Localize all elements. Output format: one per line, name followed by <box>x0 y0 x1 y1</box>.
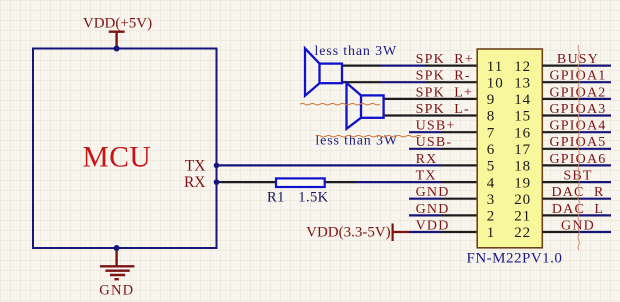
svg-text:VDD(3.3-5V): VDD(3.3-5V) <box>306 225 391 241</box>
svg-text:SPK L+: SPK L+ <box>416 85 474 100</box>
wire VDD pin1 <box>409 231 441 233</box>
power port VDD(3.3-5V) <box>306 224 409 242</box>
pin number 19 <box>514 175 531 191</box>
svg-text:16: 16 <box>514 125 531 141</box>
wire GND pin3 <box>409 198 441 200</box>
net label GPIOA6 <box>550 152 607 167</box>
wire BUSY <box>580 64 611 66</box>
svg-text:less than 3W: less than 3W <box>315 44 398 59</box>
pin number 6 <box>487 142 496 158</box>
net label GPIOA2 <box>550 85 607 100</box>
svg-text:21: 21 <box>514 209 531 225</box>
pin 18 stub <box>542 164 580 166</box>
svg-text:1.5K: 1.5K <box>298 190 328 206</box>
net label GPIOA3 <box>550 102 607 117</box>
pin 14 stub <box>542 98 580 100</box>
pin 12 stub <box>542 64 580 66</box>
svg-text:18: 18 <box>514 159 531 175</box>
svg-text:GND: GND <box>416 185 450 200</box>
pin 6 stub <box>441 148 477 150</box>
svg-text:20: 20 <box>514 192 531 208</box>
MCU pin TX <box>185 157 206 174</box>
svg-text:USB+: USB+ <box>416 119 456 134</box>
MCU pin RX <box>184 174 206 191</box>
svg-text:22: 22 <box>514 225 531 241</box>
wire GPIOA4 <box>580 131 611 133</box>
pin 22 stub <box>542 231 580 233</box>
wire GPIOA5 <box>580 148 611 150</box>
net label BUSY <box>557 52 599 67</box>
pin 8 stub <box>420 114 477 116</box>
pin number 22 <box>514 225 531 241</box>
pin number 7 <box>487 125 496 141</box>
pin 1 stub <box>441 231 477 233</box>
pin number 17 <box>514 142 531 158</box>
pin number 14 <box>514 92 531 108</box>
MCU block <box>33 49 217 249</box>
svg-text:GND: GND <box>416 202 450 217</box>
svg-text:11: 11 <box>487 59 503 75</box>
net label DAC R <box>551 185 604 200</box>
svg-text:13: 13 <box>514 75 531 91</box>
svg-text:8: 8 <box>487 109 496 125</box>
pin number 16 <box>514 125 531 141</box>
svg-text:USB-: USB- <box>416 135 453 150</box>
pin number 21 <box>514 209 531 225</box>
pin number 4 <box>487 175 496 191</box>
wire GPIOA6 <box>580 164 611 166</box>
pin 4 stub <box>441 181 477 183</box>
wire SPK L- <box>384 114 420 116</box>
pin 3 stub <box>441 198 477 200</box>
net label SPK R+ <box>416 52 474 67</box>
IC U1 FN-M22PV1.0 body <box>477 49 542 248</box>
svg-text:1: 1 <box>487 225 496 241</box>
svg-text:RX: RX <box>184 174 206 191</box>
net label TX <box>416 169 437 184</box>
svg-text:2: 2 <box>487 209 496 225</box>
pin number 2 <box>487 209 496 225</box>
pin 5 stub <box>441 164 477 166</box>
net label SPK L- <box>416 102 470 117</box>
svg-text:15: 15 <box>514 109 531 125</box>
svg-text:VDD(+5V): VDD(+5V) <box>83 16 152 32</box>
svg-text:FN-M22PV1.0: FN-M22PV1.0 <box>467 251 563 267</box>
pin number 15 <box>514 109 531 125</box>
wire USB+ <box>409 131 441 133</box>
pin number 3 <box>487 192 496 208</box>
pin 16 stub <box>542 131 580 133</box>
svg-text:TX: TX <box>185 157 206 174</box>
net label SBT <box>563 169 592 184</box>
ERC squiggle under speaker 1 <box>300 103 380 105</box>
resistor R1 1.5K <box>267 178 329 205</box>
pin 11 stub <box>425 64 477 66</box>
pin number 5 <box>487 159 496 175</box>
pin number 20 <box>514 192 531 208</box>
label less than 3W (top) <box>315 44 398 59</box>
net label USB+ <box>416 119 456 134</box>
pin number 8 <box>487 109 496 125</box>
wire SPK L+ <box>384 98 420 100</box>
svg-text:4: 4 <box>487 175 496 191</box>
svg-text:10: 10 <box>487 75 504 91</box>
pin 9 stub <box>420 98 477 100</box>
net label DAC L <box>552 202 604 217</box>
net label VDD pin1 <box>416 218 450 233</box>
pin 10 stub <box>425 81 477 83</box>
IC name FN-M22PV1.0 <box>467 251 563 267</box>
ERC squiggle vertical (right) <box>578 45 579 250</box>
svg-text:9: 9 <box>487 92 496 108</box>
net label USB- <box>416 135 453 150</box>
ground symbol <box>99 248 134 298</box>
pin 17 stub <box>542 148 580 150</box>
net label SPK L+ <box>416 85 474 100</box>
pin 20 stub <box>542 198 580 200</box>
speaker 1 (right channel) <box>305 48 342 95</box>
pin 15 stub <box>542 114 580 116</box>
svg-text:RX: RX <box>416 152 438 167</box>
pin number 12 <box>514 59 531 75</box>
wire USB- <box>409 148 441 150</box>
pin number 10 <box>487 75 504 91</box>
net label GPIOA5 <box>550 135 607 150</box>
pin number 18 <box>514 159 531 175</box>
net label GND <box>561 218 595 233</box>
wire RX (from MCU TX) <box>217 164 442 166</box>
label less than 3W (bottom) <box>315 133 398 148</box>
ERC squiggle under lower label <box>316 135 421 137</box>
svg-text:R1: R1 <box>267 190 285 206</box>
svg-text:SPK L-: SPK L- <box>416 102 470 117</box>
svg-text:17: 17 <box>514 142 531 158</box>
wire SPK R- <box>342 81 425 83</box>
wire GND pin2 <box>409 214 441 216</box>
pin 19 stub <box>542 181 580 183</box>
pin 7 stub <box>441 131 477 133</box>
net label GPIOA1 <box>550 69 607 84</box>
wire DAC R <box>580 198 611 200</box>
pin 13 stub <box>542 81 580 83</box>
svg-text:7: 7 <box>487 125 496 141</box>
wire GPIOA2 <box>580 98 611 100</box>
svg-text:3: 3 <box>487 192 496 208</box>
svg-text:MCU: MCU <box>83 142 152 174</box>
svg-text:TX: TX <box>416 169 437 184</box>
power port VDD(+5V) <box>83 16 152 49</box>
wire DAC L <box>580 214 611 216</box>
speaker 2 (left channel) <box>347 83 384 129</box>
wire GPIOA3 <box>580 114 611 116</box>
pin number 13 <box>514 75 531 91</box>
pin 21 stub <box>542 214 580 216</box>
svg-text:SPK R+: SPK R+ <box>416 52 474 67</box>
svg-text:6: 6 <box>487 142 496 158</box>
svg-text:VDD: VDD <box>416 218 450 233</box>
wire GPIOA1 <box>580 81 611 83</box>
pin number 11 <box>487 59 503 75</box>
net label GND pin2 <box>416 202 450 217</box>
net label RX <box>416 152 438 167</box>
net label GPIOA4 <box>550 119 607 134</box>
wire TX (through R1) <box>217 181 442 183</box>
pin 2 stub <box>441 214 477 216</box>
wire SBT <box>580 181 611 183</box>
junction on MCU bottom edge <box>114 245 120 251</box>
svg-text:19: 19 <box>514 175 531 191</box>
svg-text:5: 5 <box>487 159 496 175</box>
junction on MCU top edge <box>114 46 120 52</box>
net label SPK R- <box>416 69 471 84</box>
pin number 9 <box>487 92 496 108</box>
wire SPK R+ <box>342 64 425 66</box>
junction MCU RX <box>214 179 220 185</box>
svg-text:14: 14 <box>514 92 531 108</box>
junction MCU TX <box>214 163 220 169</box>
pin number 1 <box>487 225 496 241</box>
svg-text:SPK R-: SPK R- <box>416 69 471 84</box>
net label GND pin3 <box>416 185 450 200</box>
wire GND <box>580 231 611 233</box>
svg-text:GND: GND <box>99 282 134 298</box>
svg-text:12: 12 <box>514 59 531 75</box>
